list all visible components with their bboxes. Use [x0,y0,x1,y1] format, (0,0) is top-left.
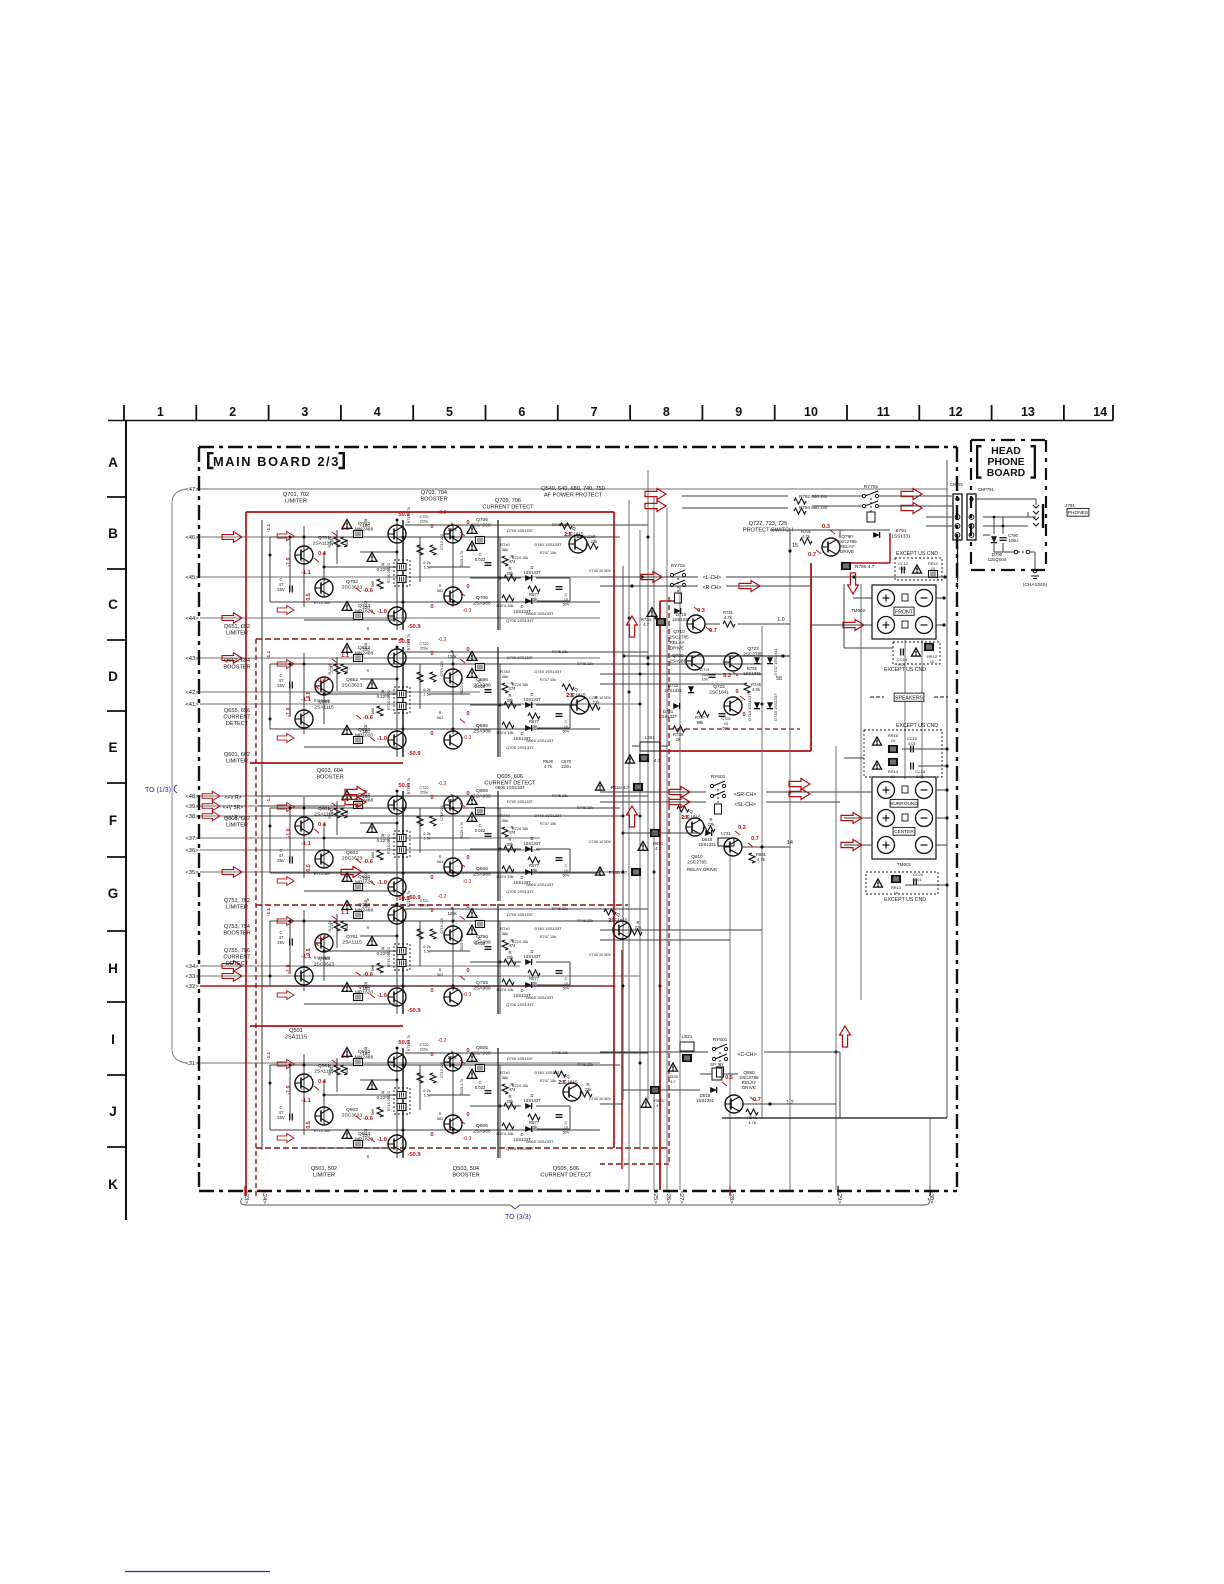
label Q601, 602 [224,816,250,828]
svg-text:D665 1SS133T: D665 1SS133T [526,995,554,1000]
svg-text:0.022: 0.022 [475,684,486,689]
transistor mid 578 [560,523,598,553]
svg-text:Q506: Q506 [476,1123,488,1129]
svg-text:R: R [367,926,370,930]
svg-text:-0.3: -0.3 [463,879,472,885]
svg-text:0: 0 [430,795,433,801]
svg-text:D740 1SS133T: D740 1SS133T [534,813,562,818]
svg-text:D665 1SS133T: D665 1SS133T [526,738,554,743]
svg-text:0: 0 [735,689,738,695]
svg-text:R629 4.7k: R629 4.7k [460,1079,464,1096]
transistor Q506 2SA988 [444,1115,462,1133]
svg-text:220u: 220u [561,764,571,769]
transistor Q752 2SC3623 [295,967,313,985]
current detect cluster [387,669,570,750]
label Q601 2SA1115 [314,806,334,818]
svg-text:0.3: 0.3 [822,524,831,530]
red voltage annotations [301,896,482,1014]
resistor R792 680 1W [794,494,828,504]
label Q653 MN2488 [355,645,374,657]
connector CNP791 labels [950,482,994,492]
svg-text:R715 560: R715 560 [314,601,330,605]
svg-text:R747 15k: R747 15k [540,678,556,682]
svg-text:0: 0 [466,1112,469,1118]
svg-text:Q723: Q723 [747,646,759,651]
svg-text:E: E [108,740,117,755]
svg-text:0: 0 [430,875,433,881]
svg-text:1.5k: 1.5k [423,693,430,697]
svg-text:220u: 220u [420,904,428,908]
transistor Q753 MN2488 [388,906,406,924]
protect red top [851,533,890,563]
svg-text:563: 563 [437,1117,443,1121]
svg-text:CURRENT DETECT: CURRENT DETECT [482,504,534,510]
fusible resistor b [342,871,370,891]
except box 3 [864,723,942,779]
label Q605 606 [495,785,525,790]
section rail b [497,791,499,901]
column ruler ticks [124,405,1113,421]
svg-text:Q605, 606: Q605, 606 [497,774,523,780]
emitter resistor pair [367,937,410,971]
svg-text:-0.3: -0.3 [463,992,472,998]
label Q603, 604 [316,768,343,780]
resistor R534 box [651,1087,660,1094]
svg-text:8: 8 [663,405,670,419]
bus junction dots [622,536,838,1065]
svg-text:-0.6: -0.6 [363,972,374,978]
connector CNP791 left [953,494,962,540]
transistor Q550 [725,1070,759,1113]
svg-text:-1.0: -1.0 [377,736,387,742]
wire q550 out [623,1090,836,1106]
svg-text:13: 13 [1021,405,1035,419]
svg-text:120k: 120k [447,798,457,803]
svg-text:LIMITER: LIMITER [226,758,248,764]
svg-text:Q705, 706: Q705, 706 [495,498,521,504]
arrow srch [345,787,690,808]
svg-text:Q705 1SS133T: Q705 1SS133T [506,889,534,894]
svg-text:DRIVE: DRIVE [670,646,684,651]
relay-drive dashed red box [669,597,800,1164]
label Q654 MP1620 [355,727,373,739]
micro labels [438,510,612,614]
svg-text:10V: 10V [701,677,708,682]
svg-text:D665 1SS133T: D665 1SS133T [526,611,554,616]
transistor Q751 2SA1115 [315,934,333,952]
diode D722 [664,683,694,693]
svg-text:7: 7 [591,405,598,419]
svg-text:Q705 1SS133T: Q705 1SS133T [506,745,534,750]
transistor Q755 2SA988 [444,988,462,1006]
svg-text:B: B [108,526,118,541]
label Q704 MP1620 [355,603,373,615]
red values Q610 [735,825,759,847]
svg-text:R674 15k: R674 15k [496,603,513,608]
label Q503 MN2488 [355,1049,374,1061]
svg-text:-1.1: -1.1 [266,795,272,804]
svg-text:0.4: 0.4 [318,822,327,828]
value 12 [786,1100,793,1106]
svg-text:Q706: Q706 [476,595,488,601]
svg-text:Q606: Q606 [476,866,488,872]
label Q656 2SA988 [473,677,491,689]
svg-text:180: 180 [362,794,370,799]
junctions [269,903,502,988]
transistor Q702 2SC3623 [315,579,333,597]
main board border bottom [199,1190,957,1192]
section rail a [402,520,404,630]
svg-text:C740 10 50V: C740 10 50V [589,953,612,957]
svg-text:1.5k: 1.5k [423,566,430,570]
rot labels [286,807,349,871]
rot labels [286,536,349,600]
svg-text:D740 1SS133T: D740 1SS133T [534,926,562,931]
current detect cluster [387,926,570,1007]
warning R634 [638,841,664,851]
svg-text:2SC1641: 2SC1641 [709,690,729,695]
svg-text:Q755, 756: Q755, 756 [224,948,250,954]
label Q703 MN2488 [355,521,374,533]
svg-text:58: 58 [776,676,782,682]
svg-text:Q653, 654: Q653, 654 [224,658,250,664]
headphone board dashed frame [971,440,1046,570]
collector wire [405,795,648,797]
transistor mid 580 [562,684,600,714]
svg-text:CURRENT: CURRENT [223,954,251,960]
svg-text:R745 22k: R745 22k [552,650,568,654]
svg-text:220: 220 [362,647,370,652]
svg-text:1.5k: 1.5k [423,1094,430,1098]
svg-text:-0.6: -0.6 [363,859,374,865]
svg-text:4.7k: 4.7k [724,615,733,620]
svg-text:CN791: CN791 [950,482,964,487]
svg-text:D740 1SS133T: D740 1SS133T [534,1070,562,1075]
svg-text:R629 4.7k: R629 4.7k [460,935,464,952]
section wires [270,791,620,901]
warning R534 [641,1098,665,1108]
collector wire [405,908,648,910]
svg-text:56k: 56k [502,547,508,552]
main board border top [199,446,957,448]
svg-text:C740 10 50V: C740 10 50V [589,1097,612,1101]
label Q705 2SA988 [473,517,491,529]
svg-text:-1.1: -1.1 [301,697,312,703]
label Q504 MP1620 [355,1131,373,1143]
svg-text:Q753, 754: Q753, 754 [224,924,250,930]
svg-text:Q705 1SS133T: Q705 1SS133T [506,618,534,623]
label Q701, 702 [283,492,309,504]
svg-text:4.7: 4.7 [656,1103,662,1108]
transistor mid 622 [604,909,642,939]
input bracket spine [172,489,186,1063]
rot labels [286,663,349,716]
resistor R651 [749,852,767,863]
section wires [270,1048,620,1158]
svg-text:D705 1SS133T: D705 1SS133T [507,1057,534,1061]
emitter resistor pair [367,553,410,587]
svg-text:R618 4.7: R618 4.7 [611,785,630,790]
svg-text:0: 0 [430,908,433,914]
svg-text:2.5: 2.5 [558,1080,566,1086]
svg-text:-1.0: -1.0 [286,1085,292,1094]
transistor Q790 [822,534,857,556]
svg-text:R716 0.22*2: R716 0.22*2 [387,690,391,710]
svg-text:Q655: Q655 [476,723,488,729]
protect red horiz [660,750,811,752]
extra value labels [266,1035,464,1159]
svg-text:<SR-CH>: <SR-CH> [734,792,757,798]
transistor Q723 [724,646,763,671]
svg-text:0.01: 0.01 [916,774,925,779]
svg-text:0.7: 0.7 [808,552,816,558]
svg-text:22k: 22k [708,822,716,827]
svg-text:-1.0: -1.0 [377,880,387,886]
transistor Q503 MN2488 [388,1053,406,1071]
svg-text:<35>: <35> [185,870,199,876]
cnp wires [993,516,1014,552]
emitter row wire [304,746,397,748]
svg-text:56k: 56k [502,931,508,936]
svg-text:474: 474 [509,830,517,835]
svg-text:J791: J791 [1065,503,1075,508]
arrow G row [341,867,362,878]
svg-text:1SS1331: 1SS1331 [698,842,717,847]
svg-text:563: 563 [437,860,443,864]
svg-text:-1.1: -1.1 [301,954,312,960]
svg-text:R746 22k: R746 22k [577,806,593,810]
section input arrows [277,1060,294,1143]
transistor Q501 2SA1115 [295,1074,313,1092]
label Q701 2SA1115A [313,535,336,547]
chassis link [1014,550,1047,588]
svg-text:1.1: 1.1 [341,526,350,532]
svg-text:Q505, 506: Q505, 506 [553,1166,579,1172]
section wires [270,520,620,630]
junctions [269,790,502,875]
svg-text:474: 474 [509,1087,517,1092]
svg-text:RY601: RY601 [711,774,726,780]
svg-text:1SS133T: 1SS133T [659,714,678,719]
svg-text:C: C [108,597,118,612]
svg-text:BOOSTER: BOOSTER [452,1172,479,1178]
svg-text:D733 1SS133T: D733 1SS133T [773,693,778,721]
svg-text:Q652: Q652 [346,677,358,683]
svg-text:2SA988: 2SA988 [473,523,491,529]
diode D510 [696,1087,717,1103]
except-us-cnd box 1 [895,551,942,580]
svg-text:Q655, 656: Q655, 656 [224,708,250,714]
svg-text:<45>: <45> [185,575,199,581]
svg-text:R768 4.7: R768 4.7 [609,870,628,875]
svg-text:4.7k: 4.7k [802,534,811,539]
diode D610 [698,830,717,847]
svg-text:6.2k: 6.2k [423,832,430,836]
bias resistors [330,664,347,674]
svg-text:56k: 56k [502,1075,508,1080]
transistor Q610 [687,838,742,872]
svg-text:50.9: 50.9 [398,1040,410,1046]
label Q603 MN2488 [355,792,374,804]
bias resistors [330,537,347,547]
svg-text:C719 220: C719 220 [440,1062,444,1078]
svg-text:Q705 1SS133T: Q705 1SS133T [506,1002,534,1007]
svg-text:EXCEPT US CND: EXCEPT US CND [896,723,938,729]
resistor R731 [723,610,735,627]
svg-text:1.0: 1.0 [777,617,784,623]
svg-text:560: 560 [371,852,375,858]
svg-text:10: 10 [931,566,936,571]
net L-CH [703,575,721,581]
svg-text:0: 0 [466,1048,469,1054]
net label TO (3/3) [505,1214,531,1221]
svg-text:0: 0 [466,647,469,653]
svg-text:<34>: <34> [185,964,199,970]
capacitor C790 [1000,533,1019,543]
svg-text:0.4: 0.4 [318,678,327,684]
svg-text:<36>: <36> [185,848,199,854]
svg-text:0.01: 0.01 [899,566,908,571]
svg-text:2SC2785: 2SC2785 [743,652,763,657]
junctions [269,1047,502,1132]
svg-text:R747 15k: R747 15k [540,822,556,826]
micro labels [438,637,612,741]
svg-text:0.01: 0.01 [908,741,917,746]
svg-text:DRIVE: DRIVE [742,1085,756,1090]
feedback resistor [371,850,383,860]
svg-text:0: 0 [466,855,469,861]
svg-text:R: R [439,1112,442,1116]
resistor R790 [842,563,875,571]
transistor Q720 [669,652,704,670]
front wires [811,596,946,630]
svg-text:220: 220 [362,1133,370,1138]
micro labels [438,781,612,885]
svg-text:11EQS04: 11EQS04 [988,557,1007,562]
svg-text:RY501: RY501 [713,1037,728,1043]
arrows srch 2 [789,779,810,800]
main board border right [956,447,958,1191]
svg-text:LIMITER: LIMITER [226,904,248,910]
svg-text:BOOSTER: BOOSTER [316,774,343,780]
diode D721 [659,703,680,719]
svg-text:560: 560 [371,1109,375,1115]
svg-text:0: 0 [466,968,469,974]
input arrows [202,532,242,981]
svg-text:C720: C720 [419,899,428,903]
svg-text:120k: 120k [447,654,457,659]
svg-text:R716 0.22*2: R716 0.22*2 [387,947,391,967]
svg-text:4.7: 4.7 [655,846,661,851]
svg-text:R747 15k: R747 15k [540,935,556,939]
red voltage annotations [301,512,482,630]
label Q751 2SA1115 [342,934,362,946]
transistor mid 572 [554,1071,592,1101]
label Q505,506 CURRENT DETECT [540,1166,592,1178]
svg-text:J: J [109,1104,117,1119]
svg-text:R716 0.22*2: R716 0.22*2 [387,563,391,583]
svg-text:-1.1: -1.1 [301,570,312,576]
svg-text:<29>: <29> [836,1190,842,1204]
emitter row wire [304,619,397,621]
transistor Q705 2SA988 [444,525,462,543]
svg-text:<47>: <47> [185,487,199,493]
svg-text:50V: 50V [562,602,569,607]
svg-text:R746 22k: R746 22k [577,662,593,666]
svg-text:BOOSTER: BOOSTER [223,930,250,936]
svg-text:10: 10 [930,659,935,664]
svg-text:15: 15 [792,543,798,549]
fusible resistor b [342,600,370,620]
svg-text:A: A [108,455,118,470]
svg-text:1SS1331: 1SS1331 [891,534,911,539]
svg-text:TM602: TM602 [851,608,866,613]
svg-text:D732 1SS1331: D732 1SS1331 [773,648,778,676]
section divider red solid 3 [250,1025,403,1027]
drive resistors [417,929,436,954]
section input arrows [277,803,294,886]
svg-text:LIMITER: LIMITER [285,498,307,504]
cnp left tail [957,540,959,600]
speaker block SURROUND-CENTER [872,777,936,867]
svg-text:TO (3/3): TO (3/3) [505,1214,531,1221]
svg-text:1SS1331: 1SS1331 [664,688,683,693]
svg-text:-50.9: -50.9 [407,1008,421,1014]
bias resistors [330,1065,347,1075]
drive resistors [417,1073,436,1098]
label Q706 2SA988 [473,595,491,607]
headphone jack J791 [976,499,1089,535]
transistor Q651 2SA1115 [295,710,313,728]
svg-text:Q501, 502: Q501, 502 [311,1166,337,1172]
label Q655 2SA988 [473,723,491,735]
svg-text:R: R [367,627,370,631]
svg-text:50V: 50V [562,1130,569,1135]
svg-text:R674 15k: R674 15k [496,730,513,735]
fusible resistor a [342,789,370,809]
svg-text:<48>: <48> [185,794,199,800]
svg-text:<+V SR>: <+V SR> [223,805,244,811]
svg-text:-1.0: -1.0 [377,1137,387,1143]
label Q605, 606 [484,774,536,786]
svg-text:C740 10 50V: C740 10 50V [589,840,612,844]
svg-text:0.5: 0.5 [306,864,312,871]
svg-text:0.022: 0.022 [475,828,486,833]
svg-text:30k: 30k [507,698,515,703]
feedback resistor [371,963,383,973]
svg-text:<R-CH>: <R-CH> [702,585,721,591]
svg-text:14: 14 [1093,405,1107,419]
svg-text:180: 180 [362,523,370,528]
label Q601, 602 [224,752,250,764]
label Q502 2SC3623 [342,1107,363,1119]
feedback resistor [371,1107,383,1117]
svg-text:220u: 220u [420,791,428,795]
svg-text:<46>: <46> [185,535,199,541]
svg-text:R629 4.7k: R629 4.7k [460,822,464,839]
svg-text:2SA1115: 2SA1115 [285,1034,307,1040]
current detect cluster [387,813,570,894]
svg-text:CNP791: CNP791 [978,487,994,492]
mid warnings [447,1050,484,1078]
svg-text:0.7: 0.7 [709,628,717,634]
svg-text:-50.9: -50.9 [407,751,421,757]
transistor Q606 2SA988 [444,858,462,876]
svg-text:-1.1: -1.1 [266,1052,272,1061]
warning R768 [596,867,641,876]
svg-text:50V: 50V [562,873,569,878]
svg-text:PHONES: PHONES [1068,510,1088,516]
